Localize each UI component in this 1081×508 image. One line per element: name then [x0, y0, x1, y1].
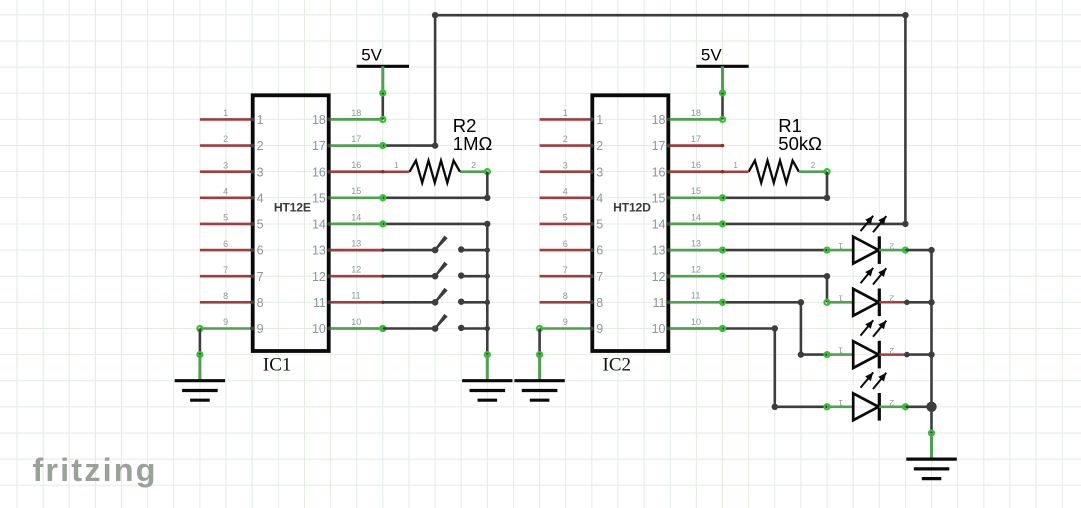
svg-text:7: 7 — [257, 270, 264, 284]
svg-text:10: 10 — [652, 322, 666, 336]
svg-text:10: 10 — [691, 317, 701, 327]
svg-text:2: 2 — [223, 134, 228, 144]
svg-text:2: 2 — [889, 398, 894, 408]
svg-text:18: 18 — [351, 108, 361, 118]
svg-text:1: 1 — [838, 398, 843, 408]
svg-text:5: 5 — [563, 213, 568, 223]
svg-text:3: 3 — [563, 160, 568, 170]
svg-text:2: 2 — [471, 160, 476, 170]
svg-text:1: 1 — [838, 346, 843, 356]
svg-text:11: 11 — [653, 296, 666, 310]
svg-text:18: 18 — [312, 113, 326, 127]
svg-text:4: 4 — [257, 191, 264, 205]
svg-text:5: 5 — [596, 218, 603, 232]
svg-text:6: 6 — [257, 244, 264, 258]
svg-text:16: 16 — [312, 165, 326, 179]
svg-text:5V: 5V — [701, 46, 722, 65]
svg-text:IC1: IC1 — [263, 354, 292, 375]
svg-text:17: 17 — [691, 134, 701, 144]
svg-text:14: 14 — [691, 212, 701, 222]
svg-text:1: 1 — [596, 113, 603, 127]
svg-text:fritzing: fritzing — [33, 452, 158, 488]
svg-text:4: 4 — [223, 187, 228, 197]
svg-text:14: 14 — [351, 212, 361, 222]
svg-text:2: 2 — [811, 160, 816, 170]
svg-text:8: 8 — [596, 296, 603, 310]
svg-text:6: 6 — [596, 244, 603, 258]
svg-text:5V: 5V — [361, 46, 382, 65]
svg-text:12: 12 — [652, 270, 666, 284]
svg-text:5: 5 — [257, 218, 264, 232]
svg-text:11: 11 — [691, 291, 700, 301]
svg-text:16: 16 — [691, 160, 701, 170]
svg-text:2: 2 — [257, 139, 264, 153]
svg-text:14: 14 — [312, 218, 326, 232]
svg-text:1: 1 — [394, 160, 399, 170]
svg-text:13: 13 — [312, 244, 326, 258]
svg-text:1: 1 — [838, 241, 843, 251]
svg-text:HT12D: HT12D — [613, 200, 651, 214]
svg-text:10: 10 — [351, 317, 361, 327]
svg-text:IC2: IC2 — [603, 354, 632, 375]
svg-text:17: 17 — [652, 139, 666, 153]
svg-text:8: 8 — [563, 291, 568, 301]
svg-text:13: 13 — [652, 244, 666, 258]
svg-text:7: 7 — [563, 265, 568, 275]
svg-text:4: 4 — [596, 191, 603, 205]
svg-text:7: 7 — [596, 270, 603, 284]
svg-text:17: 17 — [351, 134, 361, 144]
svg-text:4: 4 — [563, 187, 568, 197]
svg-text:50kΩ: 50kΩ — [778, 133, 822, 154]
svg-text:3: 3 — [257, 165, 264, 179]
svg-text:6: 6 — [563, 239, 568, 249]
svg-text:15: 15 — [351, 186, 361, 196]
svg-text:16: 16 — [351, 160, 361, 170]
svg-text:16: 16 — [652, 165, 666, 179]
svg-text:1: 1 — [838, 293, 843, 303]
svg-text:13: 13 — [351, 239, 361, 249]
svg-text:15: 15 — [312, 191, 326, 205]
svg-text:10: 10 — [312, 322, 326, 336]
svg-text:9: 9 — [223, 317, 228, 327]
svg-text:6: 6 — [223, 239, 228, 249]
svg-text:5: 5 — [223, 213, 228, 223]
svg-text:8: 8 — [223, 291, 228, 301]
svg-text:2: 2 — [563, 134, 568, 144]
svg-text:12: 12 — [351, 265, 361, 275]
svg-text:7: 7 — [223, 265, 228, 275]
svg-text:15: 15 — [691, 186, 701, 196]
svg-text:9: 9 — [257, 322, 264, 336]
svg-text:2: 2 — [889, 346, 894, 356]
svg-text:11: 11 — [351, 291, 360, 301]
svg-text:2: 2 — [596, 139, 603, 153]
svg-text:3: 3 — [223, 160, 228, 170]
svg-text:12: 12 — [312, 270, 326, 284]
svg-text:1: 1 — [563, 108, 568, 118]
svg-text:12: 12 — [691, 265, 701, 275]
svg-text:8: 8 — [257, 296, 264, 310]
svg-text:2: 2 — [889, 242, 894, 252]
svg-text:1: 1 — [223, 108, 228, 118]
svg-text:9: 9 — [596, 322, 603, 336]
svg-text:14: 14 — [652, 218, 666, 232]
svg-text:3: 3 — [596, 165, 603, 179]
svg-text:1: 1 — [257, 113, 264, 127]
svg-text:18: 18 — [691, 108, 701, 118]
svg-text:1MΩ: 1MΩ — [453, 133, 493, 154]
svg-text:9: 9 — [563, 317, 568, 327]
svg-text:1: 1 — [733, 160, 738, 170]
svg-text:2: 2 — [889, 294, 894, 304]
svg-text:17: 17 — [312, 139, 326, 153]
svg-text:HT12E: HT12E — [274, 200, 311, 214]
svg-text:13: 13 — [691, 239, 701, 249]
svg-text:18: 18 — [652, 113, 666, 127]
svg-text:15: 15 — [652, 191, 666, 205]
svg-text:11: 11 — [313, 296, 326, 310]
